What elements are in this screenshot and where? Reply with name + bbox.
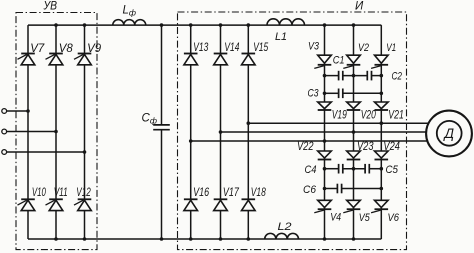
label L1: [275, 31, 287, 43]
wire: Cf branch lower: [161, 130, 163, 239]
label V23: [357, 141, 374, 153]
diode V15: [242, 54, 256, 65]
diode V20: [347, 102, 361, 110]
svg-text:V22: V22: [297, 141, 314, 153]
junction: phase line 2 to V20/V23 column: [352, 130, 356, 134]
wire: top DC bus (+): [28, 24, 381, 26]
label V17: [223, 187, 239, 199]
junction: V16 column to bottom bus: [189, 237, 193, 241]
wire: inverter column phase C: [380, 25, 382, 239]
diode V19: [318, 102, 332, 110]
wire: inverter column phase B: [353, 25, 355, 239]
wire: Cf branch upper: [161, 25, 163, 125]
diode V14: [214, 54, 228, 65]
junction: phase line 1 to V21/V24 column: [380, 121, 384, 125]
svg-text:V8: V8: [59, 43, 74, 55]
svg-text:V5: V5: [359, 212, 371, 224]
label V16: [193, 187, 209, 199]
svg-text:V7: V7: [30, 43, 45, 55]
dashed enclosure box UV (controlled rectifier unit): [16, 13, 97, 250]
junction: V3 column to top bus: [323, 23, 327, 27]
svg-text:V3: V3: [308, 41, 320, 53]
label V7: [30, 43, 45, 55]
dashed enclosure box I (inverter unit): [178, 12, 407, 250]
label V12: [76, 187, 91, 199]
junction: V4 column to bottom bus: [323, 237, 327, 241]
svg-text:C1: C1: [333, 55, 345, 67]
thyristor V11: [46, 199, 63, 210]
junction: cap row 2 phase C: [380, 92, 384, 96]
label L2: [278, 221, 292, 233]
label I: [355, 1, 364, 13]
diode V23: [347, 151, 361, 160]
wire: motor phase line 2: [221, 131, 430, 133]
capacitor C2: [367, 71, 371, 81]
label V6: [388, 212, 400, 224]
label V18: [251, 187, 266, 199]
label V11: [54, 187, 68, 199]
capacitor Cf (filter): [153, 125, 170, 130]
label D (motor): [442, 126, 454, 141]
junction: phase line 1 from V15/V18 column: [247, 121, 251, 125]
junction: V18 column to bottom bus: [247, 237, 251, 241]
label V15: [253, 42, 268, 54]
wire: input phase 2: [7, 131, 56, 133]
junction: cap row 3 phase B: [352, 167, 356, 171]
junction: V15 column to top bus: [247, 23, 251, 27]
label V5: [359, 212, 371, 224]
svg-text:V2: V2: [358, 42, 369, 54]
svg-text:Д: Д: [442, 126, 454, 141]
svg-text:C3: C3: [308, 88, 320, 100]
svg-text:V1: V1: [386, 42, 396, 54]
svg-text:V15: V15: [253, 42, 268, 54]
inductor Lf (filter choke): [113, 20, 146, 25]
junction: cap row 1 phase B: [352, 74, 356, 78]
label UV: [43, 1, 58, 13]
junction: V2 column to top bus: [352, 23, 356, 27]
svg-text:И: И: [355, 1, 364, 13]
junction: V12 column to bottom bus: [83, 237, 87, 241]
svg-text:V13: V13: [193, 42, 208, 54]
thyristor V9: [74, 54, 91, 65]
label C5: [386, 164, 399, 176]
junction: V5 column to bottom bus: [352, 237, 356, 241]
svg-text:V6: V6: [388, 212, 400, 224]
wire: cap row 4 segment a: [325, 188, 338, 190]
wire: cap row 2 segment b: [343, 92, 382, 94]
label V4: [330, 212, 341, 224]
svg-text:V17: V17: [223, 187, 239, 199]
junction: V13 column to top bus: [189, 23, 193, 27]
thyristor V3: [314, 55, 331, 68]
svg-text:V11: V11: [54, 187, 68, 199]
label V10: [32, 187, 46, 199]
label C3: [308, 88, 320, 100]
svg-text:V9: V9: [87, 43, 102, 55]
label C1: [333, 55, 345, 67]
junction: phase line 3 from V13/V16 column: [189, 139, 193, 143]
label V22: [297, 141, 314, 153]
svg-text:C4: C4: [305, 164, 317, 176]
label Cf: [142, 113, 157, 126]
svg-text:V12: V12: [76, 187, 91, 199]
junction: V17 column to bottom bus: [219, 237, 223, 241]
svg-text:C6: C6: [303, 184, 317, 196]
thyristor V5: [343, 200, 360, 213]
junction: cap row 2 phase A: [323, 92, 327, 96]
label C6: [303, 184, 317, 196]
wire: cap row 3 segment a: [325, 168, 339, 170]
wire: motor phase line 3: [191, 140, 430, 142]
svg-text:V23: V23: [357, 141, 374, 153]
capacitor C1: [339, 71, 343, 81]
label V8: [59, 43, 74, 55]
svg-text:V20: V20: [361, 110, 376, 122]
wire: input phase 1: [7, 110, 28, 112]
wire: cap row 2 segment a: [325, 92, 339, 94]
wire: cap row 4 segment b: [342, 188, 382, 190]
svg-text:V19: V19: [332, 110, 347, 122]
capacitor C5: [365, 164, 369, 174]
wire: inverter input diode column 3: [247, 25, 249, 239]
wire: rectifier phase-B column: [55, 25, 57, 239]
diode V17: [214, 199, 228, 210]
svg-text:УВ: УВ: [43, 1, 58, 13]
junction: V8 column to top bus: [54, 23, 58, 27]
wire: cap row 3 segment c: [369, 168, 381, 170]
label V21: [388, 110, 404, 122]
label V14: [224, 42, 239, 54]
label C4: [305, 164, 317, 176]
svg-text:V21: V21: [388, 110, 404, 122]
junction: V9 column to top bus: [83, 23, 87, 27]
capacitor C3: [339, 89, 343, 99]
junction: V11 column to bottom bus: [54, 237, 58, 241]
inductor L1: [267, 19, 305, 25]
junction: cap row 1 phase A: [323, 74, 327, 78]
thyristor V1: [371, 55, 388, 68]
svg-text:V10: V10: [32, 187, 46, 199]
svg-text:V4: V4: [330, 212, 341, 224]
input terminal 3: [2, 150, 7, 155]
input terminal 1: [2, 109, 7, 114]
wire: input phase 3: [7, 151, 85, 153]
diode V21: [375, 102, 389, 110]
svg-text:V24: V24: [383, 141, 400, 153]
diode V18: [242, 199, 256, 210]
svg-text:C2: C2: [392, 71, 403, 83]
junction: Cf to top bus: [160, 23, 164, 27]
junction: cap row 4 phase C: [380, 187, 384, 191]
thyristor V2: [343, 55, 360, 68]
svg-text:C5: C5: [386, 164, 399, 176]
svg-text:L2: L2: [278, 221, 292, 233]
junction: cap row 3 phase A: [323, 167, 327, 171]
wire: inverter input diode column 2: [220, 25, 222, 239]
thyristor V7: [18, 54, 35, 65]
svg-text:L1: L1: [275, 31, 287, 43]
diode V16: [184, 199, 198, 210]
motor D inner circle: [437, 121, 462, 146]
label V20: [361, 110, 376, 122]
label V3: [308, 41, 320, 53]
label V2: [358, 42, 369, 54]
thyristor V4: [314, 200, 331, 213]
input terminal 2: [2, 129, 7, 134]
junction: phase 3 to column: [83, 150, 87, 154]
label Lf: [123, 5, 137, 18]
svg-text:V16: V16: [193, 187, 209, 199]
label C2: [392, 71, 403, 83]
capacitor C6: [337, 184, 341, 194]
wire: rectifier phase-A column: [27, 25, 29, 239]
thyristor V10: [18, 199, 35, 210]
wire: cap row 1 segment a: [325, 75, 339, 77]
junction: phase line 2 from V14/V17 column: [219, 130, 223, 134]
diode V22: [318, 151, 332, 160]
thyristor V8: [46, 54, 63, 65]
svg-text:V18: V18: [251, 187, 266, 199]
label V24: [383, 141, 400, 153]
junction: V14 column to top bus: [219, 23, 223, 27]
wire: cap row 3 segment b: [343, 168, 365, 170]
thyristor V6: [371, 200, 388, 213]
wire: rectifier phase-C column: [84, 25, 86, 239]
wire: cap row 1 segment c: [372, 75, 382, 77]
thyristor V12: [74, 199, 91, 210]
inductor L2: [265, 233, 299, 239]
wire: bottom DC bus (-): [28, 238, 381, 240]
label V13: [193, 42, 208, 54]
junction: cap row 3 phase C: [380, 167, 384, 171]
wire: motor phase line 1: [248, 122, 429, 124]
wire: inverter column phase A: [324, 25, 326, 239]
junction: Cf to bottom bus: [160, 237, 164, 241]
motor D outer circle: [426, 111, 472, 157]
wire: inverter input diode column 1: [190, 25, 192, 239]
label V1: [386, 42, 396, 54]
junction: cap row 1 phase C: [380, 74, 384, 78]
label V19: [332, 110, 347, 122]
diode V24: [375, 151, 389, 160]
capacitor C4: [339, 164, 343, 174]
label V9: [87, 43, 102, 55]
wire: cap row 1 segment b: [343, 75, 368, 77]
junction: phase 1 to column: [26, 109, 30, 113]
svg-text:V14: V14: [224, 42, 239, 54]
junction: cap row 4 phase A: [323, 187, 327, 191]
junction: phase line 3 to V19/V22 column: [323, 139, 327, 143]
junction: phase 2 to column: [54, 130, 58, 134]
diode V13: [184, 54, 198, 65]
